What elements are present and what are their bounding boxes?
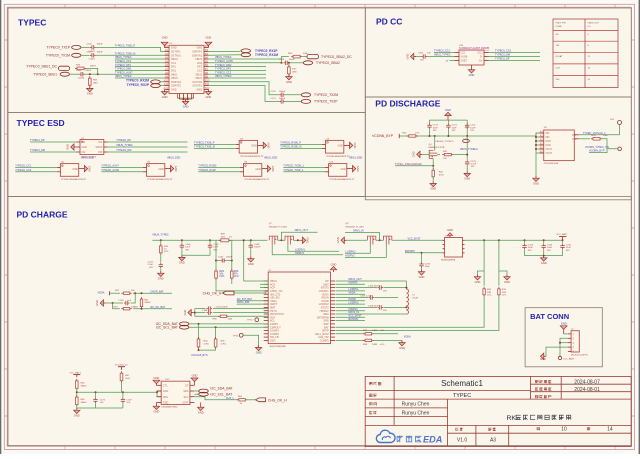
svg-text:VBUS_ESD: VBUS_ESD (167, 156, 181, 159)
svg-text:ZH-S04 54-4P54: ZH-S04 54-4P54 (571, 354, 588, 356)
svg-text:C168: C168 (202, 310, 208, 312)
wire C107 to GND (416, 56, 421, 58)
svg-text:GND: GND (196, 47, 202, 50)
wire U10 VSET stub (450, 60, 455, 62)
wire U10 VUSB left (427, 56, 455, 58)
svg-text:TPD2EUSB30ADRTR-TP: TPD2EUSB30ADRTR-TP (61, 178, 87, 181)
wire discharge lower rail (399, 135, 536, 137)
svg-text:3.3uH: 3.3uH (412, 298, 418, 300)
svg-text:GND: GND (469, 73, 475, 77)
wire TYPEC0_RX0E_M to U4 (280, 148, 322, 150)
svg-text:GND: GND (545, 144, 551, 147)
ic U9 load switch (544, 130, 575, 161)
oval RX2M (151, 80, 161, 84)
svg-text:I2C_SCL_BAT: I2C_SCL_BAT (156, 326, 178, 330)
oval RX1M (241, 53, 251, 57)
wire TYPEC0_TX2M_1 to U11 (283, 167, 325, 169)
svg-text:TPD2EUSB30ADRTR-TP: TPD2EUSB30ADRTR-TP (147, 178, 173, 181)
svg-text:SBU1: SBU1 (171, 73, 178, 76)
svg-text:VBUS_TYPEC: VBUS_TYPEC (152, 234, 169, 237)
svg-text:GND: GND (406, 53, 410, 59)
svg-text:±7%: ±7% (415, 132, 419, 134)
svg-text:C106: C106 (566, 244, 572, 246)
section box BAT CONN (525, 308, 602, 367)
wire DRV2_IN into Q8 (345, 233, 380, 241)
wire pullup bottoms (199, 347, 216, 350)
wire TYPEC0_AUX7 to U6 (101, 167, 143, 169)
svg-text:10nF: 10nF (452, 127, 458, 129)
svg-text:C112: C112 (87, 52, 93, 54)
ground right of Q7 (300, 239, 302, 241)
svg-text:(V): (V) (588, 26, 591, 28)
svg-text:D-: D- (480, 56, 483, 59)
svg-text:I2C_SDA_BAT: I2C_SDA_BAT (210, 386, 232, 390)
resistor R22 (110, 292, 121, 294)
ground under C139 (160, 269, 162, 271)
wire TX1M to C112 (82, 54, 90, 56)
wire TYPEC0_CC1 to U5 (15, 167, 57, 169)
capacitor C145 (113, 302, 123, 304)
resistor R39 (591, 138, 602, 140)
svg-text:35V: 35V (547, 250, 551, 252)
ESD diode U4 TPD2EUSB30DRTR-TP (326, 140, 344, 153)
svg-text:TP10: TP10 (247, 320, 253, 322)
svg-text:4.7K: 4.7K (556, 68, 561, 70)
ground U12 bottom-left (155, 402, 157, 404)
ESD diode U6 TPD2EUSB30ADRTR-TP (147, 164, 165, 177)
wire TYPEC0_CC2 to U5 (15, 171, 57, 173)
svg-text:249Ω: 249Ω (372, 330, 378, 332)
svg-text:PD CHARGE: PD CHARGE (17, 210, 68, 220)
svg-text:TYPEC0_DP2: TYPEC0_DP2 (215, 68, 232, 71)
svg-text:2024-08-01: 2024-08-01 (574, 387, 600, 393)
wire REGN cap C157 (336, 297, 369, 299)
svg-text:16V: 16V (433, 130, 437, 132)
wire HIDRV1 row stub (336, 283, 366, 285)
svg-text:35V: 35V (185, 249, 189, 251)
svg-text:RQ5E02AHTB: RQ5E02AHTB (441, 259, 456, 262)
svg-text:GND: GND (306, 237, 310, 243)
svg-text:GND: GND (475, 280, 481, 284)
title block table (365, 376, 631, 446)
svg-text:GND: GND (338, 145, 344, 148)
svg-text:ON: ON (572, 138, 576, 141)
svg-text:100nF: 100nF (254, 247, 261, 249)
wire C120 to TX2M port (285, 94, 301, 96)
wire SDA row U7 (189, 323, 268, 325)
capacitor C174 (447, 120, 449, 123)
wire TYPEC0_AUX8 to U6 (101, 171, 143, 173)
svg-text:VBUS_TYPEC: VBUS_TYPEC (215, 75, 232, 78)
svg-text:VBUS: VBUS (171, 58, 178, 61)
svg-text:1uF: 1uF (100, 402, 104, 404)
wire TYPEC0_RX2M to U8 (198, 167, 240, 169)
resistor R37 cellprog (336, 333, 365, 335)
section box PD CC (365, 8, 631, 97)
ground left VDDA cluster (104, 302, 106, 304)
wire discharge top rail (430, 119, 468, 121)
svg-text:16V: 16V (452, 130, 456, 132)
svg-text:GND: GND (353, 143, 357, 149)
svg-text:CHGR_BAT: CHGR_BAT (150, 290, 164, 293)
svg-text:C148: C148 (254, 244, 260, 246)
svg-text:GND: GND (74, 413, 80, 417)
ground tap left of R32 (478, 271, 485, 275)
wire PGND row stub (336, 300, 366, 302)
svg-text:TYPEC0_DP: TYPEC0_DP (116, 139, 131, 142)
svg-text:GND: GND (267, 143, 271, 149)
title block label 绘制 (369, 402, 372, 405)
section box PD DISCHARGE (365, 97, 631, 200)
svg-text:VBUS_TYPEC: VBUS_TYPEC (115, 56, 132, 59)
svg-text:GND: GND (192, 374, 198, 378)
svg-text:GND: GND (545, 140, 551, 143)
ground connector bottom-left (164, 89, 166, 91)
svg-text:10Ω: 10Ω (487, 292, 491, 294)
ground under C159 (421, 267, 423, 269)
svg-text:VDDA: VDDA (349, 291, 356, 294)
resistor R50 (237, 399, 247, 401)
svg-text:CHG_OK_H: CHG_OK_H (268, 398, 287, 402)
wire U2 IO4 (108, 141, 188, 143)
wire U9 bus from VBUS (536, 133, 539, 136)
wire Q7 mid (278, 239, 285, 241)
svg-text:TYPEC0_AUX7: TYPEC0_AUX7 (115, 71, 133, 74)
svg-text:TPD2EUSB30ADRTR-TP: TPD2EUSB30ADRTR-TP (329, 178, 355, 181)
svg-text:C103: C103 (76, 70, 82, 72)
svg-text:C104: C104 (528, 244, 534, 246)
svg-text:100nF: 100nF (279, 98, 286, 100)
svg-text:16V: 16V (471, 166, 475, 168)
power flag 5V circle (618, 121, 622, 125)
svg-text:±1%: ±1% (380, 344, 384, 346)
wire LODRV1 row stub (336, 290, 366, 292)
resistor R26 on SBU2_DC row (281, 57, 289, 59)
capacitor C113 (284, 62, 286, 64)
power flag circle VCONN_TYPEC_ON (618, 147, 622, 151)
svg-text:TYPEC0_SBU1: TYPEC0_SBU1 (33, 72, 57, 76)
resistor R30 (231, 269, 233, 280)
svg-text:10uF: 10uF (547, 247, 553, 249)
connector J2 battery (571, 331, 579, 352)
svg-text:AUX_n: AUX_n (226, 397, 235, 400)
svg-text:35V: 35V (566, 250, 570, 252)
svg-text:TYPEC0_DM: TYPEC0_DM (495, 54, 510, 57)
svg-text:TYPEC0_CC2: TYPEC0_CC2 (215, 71, 232, 74)
svg-text:±1%: ±1% (234, 275, 240, 278)
wire U9 input bus (536, 133, 539, 153)
wire TYPEC_DISCHARGE0 (395, 165, 433, 167)
svg-text:VBUS_ESD: VBUS_ESD (349, 156, 363, 159)
svg-text:TYPEC0_TX1M: TYPEC0_TX1M (46, 54, 70, 58)
title block 版本 (456, 428, 459, 431)
svg-text:SSTXP1: SSTXP1 (171, 51, 181, 54)
svg-text:TYPEC0_DP: TYPEC0_DP (495, 58, 510, 61)
wire RX2M to pin A10 (160, 81, 164, 83)
capacitor C106 (562, 240, 564, 243)
wire TX2M bend (208, 82, 279, 95)
svg-text:TYPEC: TYPEC (453, 393, 471, 399)
resistor R19 lower (113, 303, 120, 309)
wire VDDA_BAT (237, 303, 269, 305)
svg-text:C159: C159 (425, 263, 431, 265)
wire J2 pin1 gnd (564, 333, 568, 335)
title block 更新日期 (535, 380, 538, 383)
wire TYPEC0_TX0E_M to U3 (194, 148, 236, 150)
junction SBU2 row (280, 62, 282, 64)
resistor R25 2M0 (89, 76, 91, 87)
wire cap bank bottom (525, 255, 563, 257)
svg-text:VBUS_ESD: VBUS_ESD (81, 156, 95, 159)
svg-text:GND: GND (159, 168, 165, 171)
ground at U4 (347, 144, 349, 146)
svg-text:GND: GND (445, 108, 451, 112)
svg-text:OT: OT (185, 384, 189, 387)
svg-text:4.7k0: 4.7k0 (204, 344, 210, 346)
wire C103 junction (85, 73, 98, 75)
wire J2 pin4 left (546, 347, 568, 356)
wire DM to U2 (30, 151, 76, 153)
junction SDA pullup (198, 323, 200, 325)
svg-text:CHG_OK_H: CHG_OK_H (203, 291, 222, 295)
svg-text:TYPEC0_TX0E_M: TYPEC0_TX0E_M (115, 52, 136, 55)
svg-text:GND: GND (248, 262, 254, 266)
svg-text:TYPEC0_SBU2: TYPEC0_SBU2 (316, 61, 340, 65)
wire J2 pins to VCC_BATT (560, 338, 568, 356)
svg-text:GND: GND (72, 168, 78, 171)
svg-text:GND: GND (206, 95, 212, 99)
svg-text:16V: 16V (470, 130, 474, 132)
svg-text:C174: C174 (452, 125, 458, 127)
ground right of R38 (401, 340, 403, 342)
svg-text:TYPEC0_DM: TYPEC0_DM (116, 149, 131, 152)
resistor R21 vertical (141, 297, 143, 309)
capacitor C175 (466, 160, 468, 162)
svg-text:PD DISCHARGE: PD DISCHARGE (375, 99, 441, 109)
svg-text:VBUS OUT: VBUS OUT (588, 22, 600, 24)
resistor R27 2M0 under SBU2 row (288, 63, 290, 67)
svg-text:DN2: DN2 (197, 62, 203, 65)
svg-text:DP1: DP1 (171, 66, 176, 69)
svg-text:VCC_BATT: VCC_BATT (556, 233, 568, 236)
svg-text:Schematic1: Schematic1 (441, 379, 483, 388)
svg-text:VSET: VSET (461, 60, 468, 63)
svg-text:VCC2G5_V0: VCC2G5_V0 (115, 364, 128, 366)
svg-text:GND: GND (183, 310, 187, 316)
svg-text:22uF: 22uF (566, 247, 572, 249)
ground left of U2 (74, 146, 76, 148)
wire net TYPEC0_CC2 right of connector (208, 73, 266, 75)
svg-text:LODRV1: LODRV1 (295, 248, 306, 251)
svg-text:C141: C141 (148, 261, 154, 263)
svg-text:VSET PIN: VSET PIN (556, 22, 566, 24)
svg-text:±1%: ±1% (219, 275, 225, 278)
svg-text:SSRXP1: SSRXP1 (192, 51, 202, 54)
svg-text:DSG: DSG (270, 340, 275, 343)
wire net VBUS_TYPEC right of connector (208, 58, 281, 60)
wire TP16 to gnd (243, 335, 259, 345)
wire C121 to TX2P port (285, 100, 301, 102)
svg-text:GND: GND (183, 105, 189, 109)
svg-text:CC1: CC1 (461, 52, 467, 55)
svg-text:C187: C187 (126, 399, 132, 401)
svg-text:PD CC: PD CC (376, 17, 402, 27)
wire TX2P bend (208, 86, 279, 102)
svg-text:VBUS_TYPEC: VBUS_TYPEC (434, 54, 451, 57)
capacitor C104 (524, 240, 526, 243)
ground top of discharge rail (447, 116, 449, 118)
svg-text:PPG2660GCA: PPG2660GCA (544, 162, 559, 165)
svg-text:GND: GND (206, 36, 212, 40)
ground at U8 (265, 168, 267, 170)
svg-text:TYPEC0_DM2: TYPEC0_DM2 (215, 64, 232, 67)
svg-text:VOUT: VOUT (545, 152, 552, 155)
svg-text:±1%: ±1% (487, 295, 491, 297)
svg-text:1k00: 1k00 (125, 378, 131, 380)
svg-text:C113: C113 (279, 59, 285, 61)
title block 物料编码 (535, 395, 538, 398)
ground BAT CONN left (544, 355, 546, 357)
svg-text:OC: OC (572, 134, 576, 137)
svg-text:16V: 16V (383, 310, 387, 312)
svg-text:GND: GND (171, 89, 177, 92)
wire net TYPEC0_AUX8 right of connector (208, 62, 282, 64)
svg-text:VBUS_ESD: VBUS_ESD (264, 156, 278, 159)
ESD diode U3 TPD2EUSB30DRTR-TP (239, 140, 257, 153)
wire VDDA row stub (336, 293, 366, 295)
svg-text:1%: 1% (229, 236, 232, 238)
wire R26 to SBU2_DC port (302, 56, 307, 58)
svg-text:SSTXN2: SSTXN2 (192, 81, 202, 84)
resistor R36 row (195, 315, 219, 317)
svg-text:TPD2EUSB30ADRTR-TP: TPD2EUSB30ADRTR-TP (244, 178, 270, 181)
ic U10 USB PD sink controller (459, 50, 484, 65)
power flag VCC_BATT in BAT CONN (558, 356, 561, 359)
capacitor C112 (90, 54, 92, 56)
svg-text:LODRV2: LODRV2 (349, 301, 360, 304)
svg-text:VCC_BYST: VCC_BYST (408, 238, 422, 241)
ground at U6 (168, 168, 170, 170)
port TYPEC0_TX2P (301, 99, 310, 103)
logo JLCEDA cloud (376, 430, 395, 442)
svg-text:VCC_BATT: VCC_BATT (70, 371, 82, 374)
svg-text:GND: GND (412, 151, 416, 157)
svg-text:WSD4627 T1-GE3: WSD4627 T1-GE3 (269, 226, 288, 228)
inductor L3 (405, 281, 407, 289)
svg-text:50V: 50V (149, 267, 153, 269)
table VSET configuration (553, 19, 618, 88)
capacitor C187 (122, 392, 124, 397)
wire AUX_n (194, 397, 237, 400)
svg-text:VIN: VIN (545, 136, 549, 139)
wire net TYPEC0_DM2 right of connector (208, 66, 266, 68)
svg-text:±1%: ±1% (502, 295, 506, 297)
svg-text:TYPEC0_DP1: TYPEC0_DP1 (115, 64, 132, 67)
svg-text:10Ω: 10Ω (502, 292, 506, 294)
wire ACN ACP stubs (260, 283, 268, 285)
wire VBUS feed into U7 (244, 240, 269, 281)
wire R29 to CHG_OK row (216, 279, 268, 291)
svg-text:GND: GND (158, 276, 164, 280)
svg-text:4.7k0: 4.7k0 (221, 344, 227, 346)
wire BATDRV into U13 (405, 252, 443, 254)
USB type-C connector U1 (169, 45, 204, 93)
svg-text:VDDA: VDDA (404, 335, 411, 338)
port I2C_SDA_BAT right (194, 390, 198, 392)
resistor R29 (215, 269, 217, 280)
svg-text:IO1: IO1 (82, 141, 87, 144)
wire U10 CC2 right (489, 52, 541, 54)
svg-text:GND: GND (447, 228, 453, 232)
svg-text:HIDRV1: HIDRV1 (349, 282, 359, 285)
svg-text:TYPEC0_DM1: TYPEC0_DM1 (115, 68, 132, 71)
svg-text:VCC2G5_BYS: VCC2G5_BYS (191, 354, 208, 357)
svg-text:GND: GND (504, 280, 510, 284)
wire DRV1_OUT from Q7 (281, 232, 317, 240)
wire SBU1_DC bend to SBU1 row (86, 68, 165, 74)
svg-text:VCONN_BYP: VCONN_BYP (372, 134, 394, 138)
svg-text:10nF: 10nF (470, 127, 476, 129)
svg-text:SSTXN1: SSTXN1 (171, 54, 181, 57)
svg-text:LODRV2: LODRV2 (346, 250, 357, 253)
svg-text:1uF: 1uF (127, 300, 131, 302)
wire shield join (180, 98, 192, 100)
svg-text:GND: GND (88, 166, 92, 172)
ESD diode U5 TPD2EUSB30ADRTR-TP (60, 164, 78, 177)
svg-text:TYPEC ESD: TYPEC ESD (17, 118, 65, 128)
svg-text:VBUS: VBUS (195, 77, 202, 80)
wire CHG_OK port to pin (234, 291, 268, 293)
wire VCONN_BYP right (589, 149, 607, 153)
svg-text:VBUS_TYPEC: VBUS_TYPEC (116, 144, 133, 147)
svg-text:DRV2_IN: DRV2_IN (353, 230, 364, 233)
svg-text:C140: C140 (185, 244, 191, 246)
svg-text:GND: GND (271, 166, 275, 172)
svg-text:TYPEC_DISCHARGE0: TYPEC_DISCHARGE0 (395, 162, 423, 166)
svg-text:GND: GND (198, 410, 204, 414)
wire RX1P to pin B2 (208, 50, 241, 53)
wire TX1P to pin A2 (96, 47, 165, 51)
sheet left dark edge (0, 0, 1, 454)
svg-text:GND: GND (171, 47, 177, 50)
svg-text:VIN: VIN (545, 132, 549, 135)
ground cap bank (543, 256, 545, 258)
wire gnd vertical cap rows (193, 312, 194, 314)
port TYPEC0_TX2M (301, 93, 310, 97)
svg-text:SSRXP2: SSRXP2 (171, 85, 181, 88)
svg-text:CC2: CC2 (477, 52, 483, 55)
ground under R25 (89, 86, 91, 88)
resistor R35 pullup (215, 327, 217, 338)
section box TYPEC ESD (8, 112, 365, 196)
svg-text:16V: 16V (383, 290, 387, 292)
ic U12 CS4056 charger (161, 381, 190, 404)
svg-text:STAT: STAT (182, 402, 188, 405)
wire R41 to VBUS column (454, 154, 468, 156)
resistor R23 NTC column (160, 240, 162, 244)
svg-text:CRG: CRG (163, 390, 169, 393)
oval RX1P (241, 49, 251, 53)
svg-text:10: 10 (561, 427, 567, 433)
wire R30 down (231, 279, 233, 284)
wire RX1M to pin B3 (208, 54, 241, 56)
svg-text:GND: GND (87, 92, 93, 96)
svg-text:GND: GND (341, 168, 347, 171)
svg-text:GND: GND (154, 376, 160, 380)
wire flag to U9 OC (579, 125, 620, 135)
wire net TYPEC0_DP2 right of connector (208, 69, 266, 71)
svg-text:4.7uF: 4.7uF (471, 164, 477, 166)
